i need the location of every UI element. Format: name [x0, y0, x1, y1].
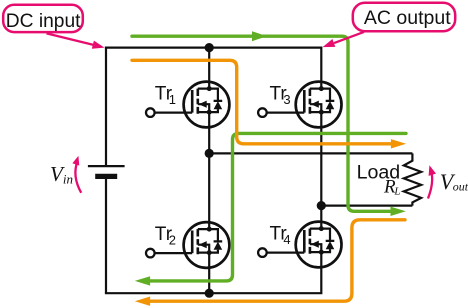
- svg-text:Tr3: Tr3: [270, 83, 291, 107]
- wire Tr2 source leg: [208, 268, 210, 294]
- svg-text:Vout: Vout: [440, 169, 468, 194]
- transistor Tr1 N-MOSFET with body diode: [146, 82, 229, 128]
- callout arrow AC output: [334, 32, 364, 43]
- junction node top bus / Tr1 drain: [205, 43, 214, 52]
- svg-text:Vin: Vin: [50, 162, 73, 187]
- junction node leg2 midpoint / load bottom wire: [317, 201, 326, 210]
- svg-text:Tr1: Tr1: [155, 83, 176, 107]
- transistor Tr4 N-MOSFET with body diode: [258, 222, 341, 268]
- junction node leg1 midpoint / load top wire: [205, 149, 214, 158]
- orange current path 1: top bus down middle to load top: [132, 60, 393, 144]
- Vin arrow (pink): [75, 161, 81, 193]
- battery Vin long positive plate: [88, 165, 125, 167]
- wire leg2 midpoint Tr3 source to Tr4 drain: [320, 127, 322, 222]
- callout box AC output: [353, 3, 455, 31]
- green arrowhead on bottom bus pointing left: [135, 276, 150, 285]
- wire left frame upper (battery+ lead): [105, 47, 107, 167]
- transistor Tr2 N-MOSFET with body diode: [146, 222, 229, 268]
- svg-text:Tr2: Tr2: [155, 224, 176, 248]
- transistor Tr3 N-MOSFET with body diode: [258, 82, 341, 128]
- wire top bus from battery+ to Tr3 drain: [105, 48, 321, 82]
- Vout arrow (pink): [428, 171, 432, 198]
- junction node bottom bus / Tr2 source: [205, 289, 214, 298]
- green current path 2: from load top back left and down to bottom bus: [149, 133, 407, 281]
- svg-text:Tr4: Tr4: [270, 223, 291, 247]
- orange arrowhead on bottom bus pointing left: [135, 297, 150, 306]
- battery Vin short negative plate: [95, 174, 117, 179]
- callout arrow DC input: [47, 33, 96, 45]
- wire load top from leg1 midpoint: [209, 152, 412, 154]
- svg-text:DC input: DC input: [6, 11, 81, 32]
- green arrowhead into load bottom: [391, 207, 406, 216]
- wire bottom bus to Tr4 source: [105, 267, 321, 293]
- orange current path 2: from load bottom down right side to bottom bus: [149, 220, 406, 301]
- wire load bottom from leg2 midpoint: [321, 205, 412, 207]
- resistor RL zigzag: [404, 153, 421, 205]
- svg-text:AC output: AC output: [364, 7, 451, 29]
- wire leg1 midpoint Tr1 source to Tr2 drain: [208, 127, 210, 223]
- green current path 1: top bus down right side to load bottom: [132, 36, 393, 211]
- orange arrowhead into load top: [391, 139, 406, 148]
- green arrowhead mid on top bus: [252, 31, 267, 41]
- wire Tr1 drain leg: [208, 48, 210, 82]
- callout box DC input: [3, 5, 83, 32]
- wire left frame lower (battery- lead): [105, 176, 107, 293]
